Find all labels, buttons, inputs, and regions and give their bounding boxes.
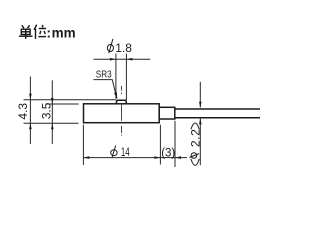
svg-text:(3): (3)	[161, 147, 175, 159]
extension line cable start	[174, 121, 176, 167]
svg-text:14: 14	[121, 147, 130, 159]
label (phi2.2) close paren	[191, 123, 199, 129]
unit note kanji 位 (hand-drawn strokes)	[34, 25, 46, 39]
dimension line phi2.2 upper	[199, 82, 201, 108]
arrow phi2.2 bottom	[199, 118, 202, 124]
sensor body	[84, 104, 160, 123]
arrow (3) right	[175, 156, 181, 159]
leader SR3 arrowhead	[114, 92, 117, 99]
svg-text:SR3: SR3	[96, 68, 112, 80]
arrow phi1.8 left	[110, 58, 116, 61]
arrow 3.5 top	[51, 98, 54, 104]
cable bottom line	[175, 117, 260, 119]
dimension line 4.3	[29, 77, 31, 145]
dimension line phi14 and (3)	[83, 157, 187, 159]
dimension line 3.5	[51, 80, 53, 144]
extension line body top (for 3.5)	[46, 103, 79, 105]
arrow 4.3 bottom	[29, 123, 32, 129]
label phi14 phi symbol	[111, 146, 117, 158]
leader SR3 underline	[94, 80, 118, 99]
centerline	[121, 86, 123, 136]
extension line phi14 right	[159, 125, 161, 165]
unit note text ": mm"	[46, 25, 75, 41]
dimension line phi2.2 lower	[199, 119, 201, 166]
sensing tip bump	[116, 100, 126, 104]
extension line phi1.8 left	[115, 54, 117, 99]
arrow 3.5 bottom	[51, 123, 54, 129]
arrow phi2.2 top	[199, 102, 202, 108]
svg-text:2.2: 2.2	[188, 129, 202, 147]
arrow phi1.8 right	[126, 58, 132, 61]
extension line phi1.8 right	[125, 54, 127, 101]
label phi1.8 phi symbol	[107, 39, 113, 53]
cable top line	[175, 108, 260, 110]
arrow 4.3 top	[29, 94, 32, 100]
svg-text:1.8: 1.8	[115, 41, 132, 55]
extension line bump top (for 4.3)	[24, 99, 117, 101]
collar	[159, 107, 175, 119]
label (phi2.2) phi symbol	[190, 153, 200, 159]
svg-text:4.3: 4.3	[16, 103, 30, 120]
extension line body bottom (shared)	[24, 122, 79, 124]
svg-text:mm: mm	[52, 26, 76, 41]
svg-text::: :	[46, 25, 51, 41]
extension line phi14 left	[82, 125, 84, 165]
svg-text:3.5: 3.5	[40, 102, 54, 119]
unit note kanji 単 (hand-drawn strokes)	[19, 25, 33, 39]
arrow phi14 right	[154, 156, 160, 159]
arrow phi14 left	[83, 156, 89, 159]
dimension line phi1.8	[94, 58, 151, 60]
label (phi2.2) open paren	[191, 159, 199, 166]
